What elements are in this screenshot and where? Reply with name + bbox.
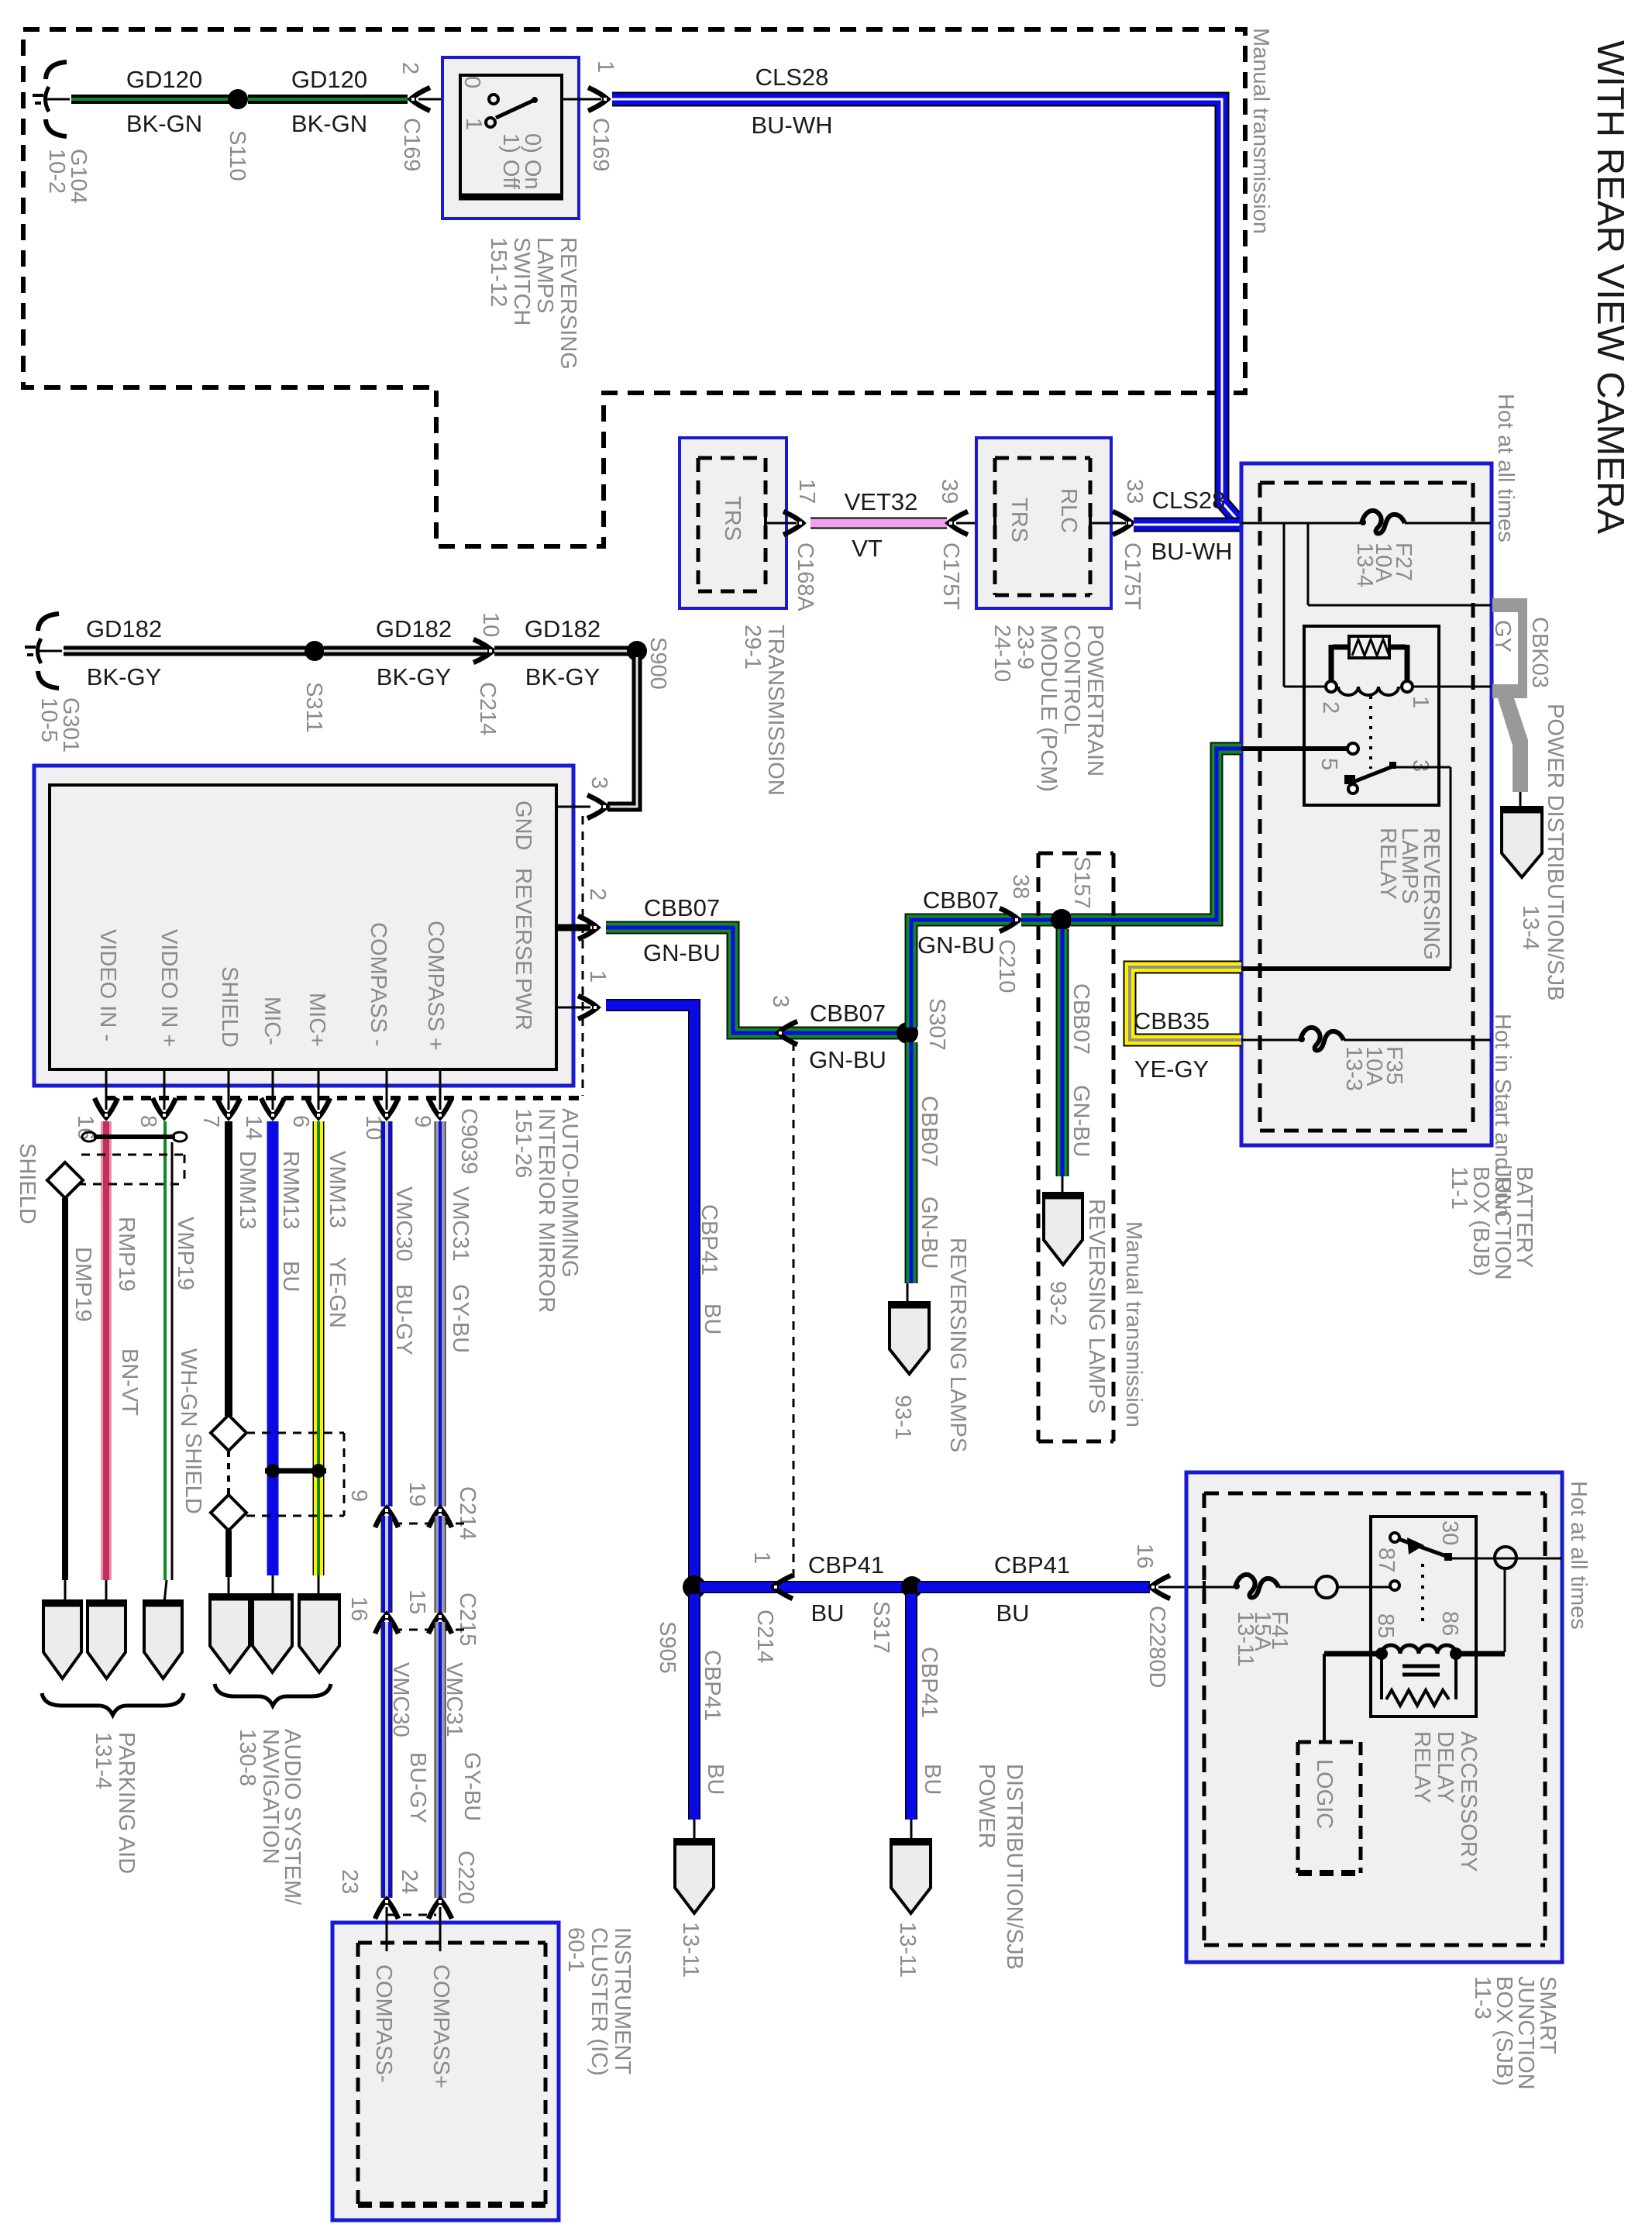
svg-text:GD182: GD182 — [86, 615, 162, 642]
svg-text:TRANSMISSION: TRANSMISSION — [763, 625, 788, 796]
wire VMC30 BU-GY lower — [381, 1622, 393, 1898]
svg-text:16: 16 — [1132, 1544, 1157, 1568]
svg-text:CLS28: CLS28 — [1152, 487, 1226, 514]
svg-text:8: 8 — [136, 1115, 160, 1128]
svg-text:GN-BU: GN-BU — [917, 1196, 941, 1269]
wire DMM13 — [225, 1121, 232, 1416]
svg-text:1: 1 — [1408, 696, 1433, 708]
svg-text:Manual transmission: Manual transmission — [1248, 28, 1273, 234]
svg-text:MIC-: MIC- — [260, 997, 284, 1045]
svg-text:1: 1 — [749, 1551, 774, 1564]
wire CBB07 GN-BU S307 down — [905, 1042, 918, 1283]
svg-text:BN-VT: BN-VT — [117, 1348, 142, 1416]
svg-text:10-5: 10-5 — [36, 697, 61, 742]
wire from switch to pin1 — [562, 98, 601, 101]
svg-text:C214: C214 — [455, 1486, 480, 1540]
connector C215 arrows — [375, 1613, 398, 1634]
reversing lamps switch box — [442, 57, 579, 219]
svg-text:REVERSE: REVERSE — [511, 868, 535, 976]
relay resistor (SJB) — [1380, 1658, 1383, 1699]
powertrain control module box — [976, 438, 1111, 608]
shield dashed link (DMM13) — [227, 1451, 230, 1496]
svg-text:RELAY: RELAY — [1409, 1731, 1434, 1803]
svg-text:GN-BU: GN-BU — [809, 1046, 886, 1073]
ground G301 — [25, 614, 62, 688]
connector C2280D pin 16 arrow — [1150, 1575, 1170, 1599]
svg-text:COMPASS +: COMPASS + — [423, 921, 448, 1051]
relay terminal 5 — [1241, 746, 1347, 751]
svg-text:CBP41: CBP41 — [697, 1204, 721, 1276]
brace audio system — [215, 1684, 331, 1706]
wire RMM13 BU — [267, 1121, 279, 1575]
svg-text:Hot at all times: Hot at all times — [1566, 1481, 1591, 1630]
svg-text:LOGIC: LOGIC — [1312, 1759, 1337, 1829]
wire CBP41 BU S905 down — [688, 1594, 700, 1820]
splice S307 — [897, 1022, 918, 1044]
svg-text:C215: C215 — [455, 1592, 480, 1646]
relay terminal 87 — [1390, 1581, 1399, 1590]
svg-text:17: 17 — [794, 479, 819, 504]
svg-text:SHIELD: SHIELD — [181, 1433, 205, 1514]
fuse F27 10A — [1360, 511, 1405, 534]
shield dashed (mic) — [246, 1432, 344, 1434]
svg-text:CBB35: CBB35 — [1134, 1007, 1210, 1035]
svg-text:10-2: 10-2 — [44, 149, 69, 194]
splice S311 — [305, 641, 325, 661]
svg-text:7: 7 — [198, 1115, 223, 1128]
svg-text:BU: BU — [703, 1764, 728, 1795]
svg-text:0: 0 — [459, 76, 484, 88]
svg-text:VMP19: VMP19 — [173, 1217, 198, 1290]
wire CBB07 GN-BU S157 down — [1056, 929, 1069, 1176]
svg-text:GY-BU: GY-BU — [459, 1752, 484, 1821]
svg-text:3: 3 — [768, 995, 793, 1007]
svg-text:GN-BU: GN-BU — [917, 931, 995, 959]
svg-text:CONTROL: CONTROL — [1059, 625, 1084, 735]
svg-text:93-1: 93-1 — [890, 1395, 915, 1440]
wire relay terminal 3 out — [1395, 766, 1451, 769]
connector C168A pin 17 arrow — [783, 511, 804, 535]
svg-text:GN-BU: GN-BU — [1069, 1085, 1093, 1157]
svg-text:9: 9 — [346, 1489, 371, 1502]
svg-text:14: 14 — [241, 1115, 266, 1140]
wire RMP19 BN-VT — [101, 1121, 112, 1580]
svg-text:GN-BU: GN-BU — [643, 939, 721, 966]
svg-text:COMPASS -: COMPASS - — [366, 922, 391, 1047]
svg-text:GD120: GD120 — [126, 66, 202, 93]
svg-text:1: 1 — [585, 970, 610, 983]
fuse F27 box — [1307, 523, 1310, 605]
relay coil winding — [1338, 687, 1399, 695]
accessory delay relay box — [1371, 1517, 1476, 1716]
svg-text:WH-GN: WH-GN — [176, 1348, 201, 1427]
fuse F41 15A — [1234, 1575, 1279, 1598]
svg-text:WITH REAR VIEW CAMERA: WITH REAR VIEW CAMERA — [1589, 40, 1631, 534]
wire GD182 down to mirror GND — [607, 657, 637, 807]
svg-text:13-11: 13-11 — [678, 1922, 703, 1978]
svg-text:C2280D: C2280D — [1144, 1606, 1169, 1688]
connector C9039 dashed boundary — [582, 816, 584, 1096]
svg-text:BU: BU — [811, 1599, 844, 1627]
mirror pin stubs right — [556, 806, 590, 808]
svg-text:CBK03: CBK03 — [1527, 617, 1552, 688]
svg-text:11-1: 11-1 — [1447, 1166, 1471, 1210]
svg-text:CBP41: CBP41 — [994, 1551, 1070, 1579]
svg-text:AUTO-DIMMING: AUTO-DIMMING — [557, 1108, 582, 1278]
wire VMC30/31 between C214 and C215 — [381, 1516, 393, 1613]
connector C169 pin 2 arrow — [410, 88, 430, 111]
svg-text:S311: S311 — [301, 682, 326, 733]
svg-text:REVERSING LAMPS: REVERSING LAMPS — [945, 1238, 970, 1452]
twisted pair link (mic) — [265, 1468, 326, 1474]
connector C169 pin 1 arrow — [588, 88, 608, 111]
splice S905 — [683, 1575, 706, 1599]
svg-text:1: 1 — [461, 118, 486, 130]
wire into reversing lamps switch — [418, 98, 460, 101]
svg-text:130-8: 130-8 — [235, 1729, 260, 1786]
svg-text:BK-GN: BK-GN — [291, 110, 367, 137]
wire GD182 BK-GY (right) — [494, 646, 632, 656]
svg-text:60-1: 60-1 — [563, 1927, 588, 1972]
svg-text:VMM13: VMM13 — [325, 1151, 349, 1228]
svg-text:BK-GN: BK-GN — [126, 110, 202, 137]
svg-text:VMC31: VMC31 — [442, 1662, 466, 1737]
wire VMP19 WH-GN — [163, 1121, 167, 1580]
svg-text:CBB07: CBB07 — [923, 887, 999, 914]
svg-text:LAMPS: LAMPS — [532, 237, 557, 313]
connector REVERSING LAMPS 93-2 — [1044, 1193, 1082, 1265]
svg-text:87: 87 — [1374, 1548, 1399, 1572]
svg-text:BU-GY: BU-GY — [391, 1284, 416, 1355]
connector AUDIO SYSTEM pentagons — [210, 1595, 250, 1672]
connector C9039 pin 3 arrow (CBB07) — [777, 1021, 797, 1045]
svg-text:30: 30 — [1437, 1520, 1462, 1545]
svg-text:13-11: 13-11 — [895, 1922, 920, 1978]
connector C220 arrows — [375, 1899, 398, 1919]
svg-text:POWERTRAIN: POWERTRAIN — [1082, 625, 1107, 776]
splice S110 — [228, 89, 248, 109]
svg-text:BU-WH: BU-WH — [1151, 538, 1232, 565]
wire TRS to C168A — [766, 522, 797, 525]
svg-text:VIDEO IN -: VIDEO IN - — [95, 929, 120, 1042]
auto-dimming interior mirror box — [34, 766, 573, 1086]
relay mechanical link dotted — [1369, 696, 1372, 769]
connector PARKING AID pentagons — [43, 1601, 81, 1678]
svg-text:19: 19 — [404, 1482, 429, 1506]
wire VMC31 GY-BU lower — [435, 1622, 446, 1898]
wire VET32 VT — [811, 518, 947, 529]
wire CBP41 BU S317 to SJB — [917, 1581, 1150, 1593]
wire CBB07 GN-BU S307 up to C210 — [911, 920, 1014, 1028]
connector C210 pin 38 arrow — [1000, 908, 1020, 931]
svg-text:GY-BU: GY-BU — [448, 1284, 473, 1353]
wire CBP41 BU from mirror pin 1 — [606, 1005, 694, 1582]
svg-text:COMPASS-: COMPASS- — [371, 1964, 396, 2083]
svg-text:GND: GND — [511, 801, 535, 850]
connector C175T pin 39 arrow — [948, 511, 968, 535]
svg-text:C169: C169 — [399, 118, 424, 171]
svg-text:COMPASS+: COMPASS+ — [428, 1964, 453, 2088]
twisted pair link (video) — [94, 1134, 175, 1139]
svg-text:S317: S317 — [869, 1601, 893, 1654]
svg-text:39: 39 — [937, 479, 962, 504]
wire CBB07 GN-BU S157 to relay terminal 5 — [1071, 749, 1241, 920]
svg-text:BK-GY: BK-GY — [377, 663, 451, 690]
wire F35 feed — [1241, 1039, 1302, 1042]
bus ring on 30 wire — [1495, 1547, 1516, 1568]
relay resistor — [1333, 645, 1349, 650]
connector POWER DISTRIBUTION/SJB 13-4 — [1502, 807, 1542, 877]
mirror pin 2 arrow — [578, 916, 598, 939]
svg-text:YE-GY: YE-GY — [1134, 1055, 1209, 1083]
svg-text:Hot at all times: Hot at all times — [1493, 394, 1518, 542]
mirror pin 1 arrow — [578, 996, 598, 1019]
svg-text:INTERIOR MIRROR: INTERIOR MIRROR — [534, 1108, 559, 1313]
wire CLS28 BU-WH to BJB — [612, 99, 1242, 525]
connector C214 pin 1 arrow (CBP41) — [773, 1575, 793, 1599]
svg-text:23: 23 — [337, 1869, 362, 1894]
LOGIC dashed box — [1298, 1740, 1361, 1744]
svg-text:C214: C214 — [752, 1610, 777, 1663]
svg-text:BU: BU — [278, 1261, 303, 1292]
svg-text:SHIELD: SHIELD — [217, 966, 242, 1048]
svg-text:CBB07: CBB07 — [644, 894, 720, 921]
wire GD182 BK-GY (middle) — [324, 646, 487, 656]
wire CBP41 BU S317 down — [905, 1594, 917, 1820]
svg-text:GY: GY — [1490, 620, 1515, 652]
IC pin 23/24 leads — [386, 1907, 388, 1951]
svg-text:38: 38 — [1008, 874, 1033, 899]
svg-text:CLUSTER (IC): CLUSTER (IC) — [587, 1927, 611, 2076]
svg-text:BU: BU — [920, 1764, 945, 1795]
svg-text:CBB07: CBB07 — [917, 1096, 941, 1167]
svg-text:C214: C214 — [475, 682, 500, 735]
relay capacitor — [1402, 1665, 1440, 1668]
svg-text:CLS28: CLS28 — [755, 64, 829, 91]
wire CLS28 BU-WH into BJB — [1134, 518, 1242, 532]
smart junction box (SJB) — [1186, 1472, 1562, 1962]
wire CBB35 YE-GY loop — [1130, 967, 1241, 1040]
svg-text:INSTRUMENT: INSTRUMENT — [610, 1927, 635, 2074]
wire CBP41 BU S905 to S317 — [700, 1581, 905, 1593]
connector POWER DISTRIBUTION/SJB 13-11 (right) — [891, 1840, 931, 1913]
splice S157 — [1051, 909, 1072, 931]
svg-text:YE-GN: YE-GN — [325, 1257, 349, 1328]
svg-text:13-11: 13-11 — [1233, 1611, 1258, 1667]
svg-text:GD182: GD182 — [376, 615, 452, 642]
svg-text:151-26: 151-26 — [511, 1108, 535, 1178]
svg-text:151-12: 151-12 — [486, 237, 511, 307]
svg-text:2: 2 — [398, 62, 422, 74]
svg-text:2: 2 — [1318, 701, 1343, 714]
bus ring on F41 wire — [1316, 1576, 1337, 1598]
connector C214 pin 10 arrow (GD182) — [473, 639, 494, 663]
svg-text:REVERSING LAMPS: REVERSING LAMPS — [1084, 1199, 1109, 1413]
svg-text:C175T: C175T — [938, 542, 963, 610]
svg-text:VT: VT — [852, 535, 883, 562]
connector POWER DISTRIBUTION/SJB 13-11 (left) — [675, 1840, 714, 1913]
manual transmission region dashed boundary — [23, 29, 1245, 546]
switch contact 0 — [489, 95, 498, 104]
svg-text:VMC31: VMC31 — [448, 1186, 473, 1262]
svg-text:24: 24 — [397, 1869, 422, 1894]
svg-text:TRS: TRS — [1007, 498, 1031, 542]
svg-text:13-4: 13-4 — [1352, 542, 1377, 587]
svg-text:13-3: 13-3 — [1341, 1046, 1366, 1091]
svg-text:RLC: RLC — [1056, 488, 1081, 533]
svg-text:MODULE (PCM): MODULE (PCM) — [1036, 625, 1061, 792]
svg-text:BU-GY: BU-GY — [405, 1752, 430, 1823]
connector C214 arrows (VMC30/31) — [375, 1507, 398, 1527]
svg-text:C169: C169 — [588, 118, 613, 171]
ground G104 — [33, 62, 70, 136]
svg-text:BK-GY: BK-GY — [87, 663, 161, 690]
svg-text:29-1: 29-1 — [740, 625, 765, 670]
svg-text:Manual transmission: Manual transmission — [1121, 1221, 1146, 1427]
svg-text:BU: BU — [700, 1303, 724, 1334]
splice S317 — [901, 1576, 923, 1598]
svg-text:15: 15 — [404, 1589, 429, 1614]
shield diamond DMM13 lower — [211, 1495, 246, 1530]
svg-text:3: 3 — [1408, 759, 1433, 772]
svg-text:PWR: PWR — [511, 978, 535, 1031]
connector REVERSING LAMPS 93-1 — [890, 1303, 929, 1374]
svg-text:DMP19: DMP19 — [71, 1247, 95, 1322]
svg-text:6: 6 — [288, 1115, 313, 1128]
wire GD120 BK-GN (right segment) — [248, 95, 408, 104]
svg-text:S110: S110 — [225, 130, 250, 181]
splice S900 — [627, 641, 647, 661]
svg-text:85: 85 — [1373, 1613, 1398, 1638]
svg-text:ACCESSORY: ACCESSORY — [1456, 1731, 1481, 1872]
svg-text:23-9: 23-9 — [1013, 625, 1038, 670]
svg-text:RELAY: RELAY — [1375, 828, 1400, 900]
svg-text:VET32: VET32 — [845, 488, 918, 515]
wire BJB feed from CLS28 — [1241, 522, 1362, 525]
svg-text:VMC30: VMC30 — [391, 1186, 416, 1262]
mirror bottom pin wires and arrows — [105, 1069, 108, 1110]
wire VMC30 BU-GY upper — [381, 1121, 393, 1506]
wire GD182 BK-GY (left) — [64, 646, 307, 656]
svg-text:C220: C220 — [453, 1851, 478, 1904]
svg-text:C210: C210 — [994, 939, 1019, 993]
relay coil (SJB) — [1324, 1651, 1382, 1657]
svg-text:NAVIGATION: NAVIGATION — [258, 1729, 283, 1864]
switch lever — [496, 99, 536, 118]
svg-text:11-3: 11-3 — [1470, 1976, 1495, 2019]
relay switch lever — [1344, 775, 1355, 784]
svg-text:DELAY: DELAY — [1433, 1731, 1458, 1803]
svg-text:BK-GY: BK-GY — [525, 663, 600, 690]
svg-text:93-2: 93-2 — [1045, 1281, 1070, 1326]
fuse F35 10A — [1299, 1028, 1344, 1051]
dashed connector line C214 vertical — [793, 1042, 795, 1581]
transmission box — [680, 438, 786, 608]
svg-text:SHIELD: SHIELD — [15, 1143, 40, 1224]
wire VMC31 GY-BU upper — [435, 1121, 446, 1506]
svg-text:S905: S905 — [655, 1621, 680, 1674]
svg-text:16: 16 — [346, 1596, 371, 1621]
connector C175T pin 33 arrow — [1113, 511, 1133, 535]
svg-text:C9039: C9039 — [456, 1108, 481, 1174]
svg-text:3: 3 — [587, 776, 611, 789]
shield dashed (video) — [81, 1154, 184, 1156]
connector pin 3 arrow (mirror GND) — [587, 795, 607, 818]
svg-text:BU: BU — [996, 1599, 1029, 1627]
svg-text:2: 2 — [585, 888, 610, 900]
svg-text:MIC+: MIC+ — [305, 993, 329, 1047]
svg-text:131-4: 131-4 — [91, 1732, 115, 1789]
svg-text:CBB07: CBB07 — [810, 1000, 886, 1027]
wire DMP19 — [62, 1198, 68, 1580]
svg-text:REVERSING: REVERSING — [556, 237, 580, 370]
svg-text:9: 9 — [410, 1115, 435, 1128]
wire coil to LOGIC — [1323, 1654, 1326, 1744]
relay mechanical link dotted (SJB) — [1421, 1564, 1424, 1627]
svg-text:86: 86 — [1437, 1611, 1462, 1636]
svg-text:VIDEO IN +: VIDEO IN + — [157, 929, 181, 1047]
svg-text:Hot in Start and Run: Hot in Start and Run — [1490, 1014, 1515, 1217]
svg-text:BU-WH: BU-WH — [751, 112, 832, 139]
wire terminal 30 to SJB edge — [1451, 1558, 1562, 1560]
svg-text:5: 5 — [1316, 758, 1341, 770]
wire to reversing lamps relay coil — [1283, 523, 1285, 687]
svg-text:RMP19: RMP19 — [114, 1217, 139, 1292]
svg-text:CBP41: CBP41 — [808, 1551, 884, 1579]
battery junction box (BJB) — [1241, 463, 1492, 1145]
svg-text:DISTRIBUTION/SJB: DISTRIBUTION/SJB — [1002, 1764, 1027, 1970]
svg-text:S157: S157 — [1069, 856, 1094, 909]
svg-text:10: 10 — [478, 612, 503, 637]
brace parking aid — [42, 1693, 184, 1715]
svg-text:33: 33 — [1122, 479, 1147, 504]
svg-text:C175T: C175T — [1120, 542, 1144, 610]
connector CBK03 GY to power distribution — [1492, 598, 1527, 698]
shield diamond DMP19 — [47, 1162, 83, 1198]
manual transmission dashed box 2 — [1038, 852, 1113, 856]
svg-text:1: 1 — [593, 60, 618, 73]
switch contact 1 — [486, 118, 495, 127]
svg-text:POWER DISTRIBUTION/SJB: POWER DISTRIBUTION/SJB — [1543, 704, 1568, 1000]
wire VMM13 YE-GN — [313, 1121, 325, 1575]
wire into F41 — [1203, 1581, 1206, 1593]
wire PCM to C175T pin 33 — [1090, 522, 1126, 525]
wire CBB07 GN-BU from mirror pin 2 — [606, 928, 899, 1033]
svg-text:C168A: C168A — [793, 542, 817, 611]
svg-text:13-4: 13-4 — [1518, 905, 1543, 950]
wire GD120 BK-GN (left segment) — [71, 95, 229, 104]
svg-text:CBP41: CBP41 — [700, 1650, 724, 1721]
svg-text:GD182: GD182 — [525, 615, 601, 642]
svg-text:S900: S900 — [645, 637, 670, 690]
relay terminal 30 lever — [1390, 1533, 1399, 1542]
svg-text:GD120: GD120 — [291, 66, 367, 93]
svg-text:SWITCH: SWITCH — [509, 237, 534, 325]
instrument cluster (IC) box — [332, 1923, 559, 2220]
svg-text:CBB07: CBB07 — [1069, 983, 1093, 1055]
svg-text:CBP41: CBP41 — [917, 1647, 941, 1718]
reversing lamps relay box — [1304, 626, 1439, 805]
svg-text:RMM13: RMM13 — [278, 1151, 303, 1230]
svg-text:1) Off: 1) Off — [498, 133, 523, 190]
svg-text:POWER: POWER — [974, 1764, 999, 1849]
svg-text:TRS: TRS — [720, 496, 745, 541]
svg-text:S307: S307 — [924, 998, 949, 1051]
svg-text:24-10: 24-10 — [989, 625, 1014, 682]
shield diamond DMM13 upper — [211, 1415, 246, 1451]
relay coil terminals 2 and 1 — [1326, 681, 1337, 692]
svg-text:DMM13: DMM13 — [235, 1151, 260, 1230]
